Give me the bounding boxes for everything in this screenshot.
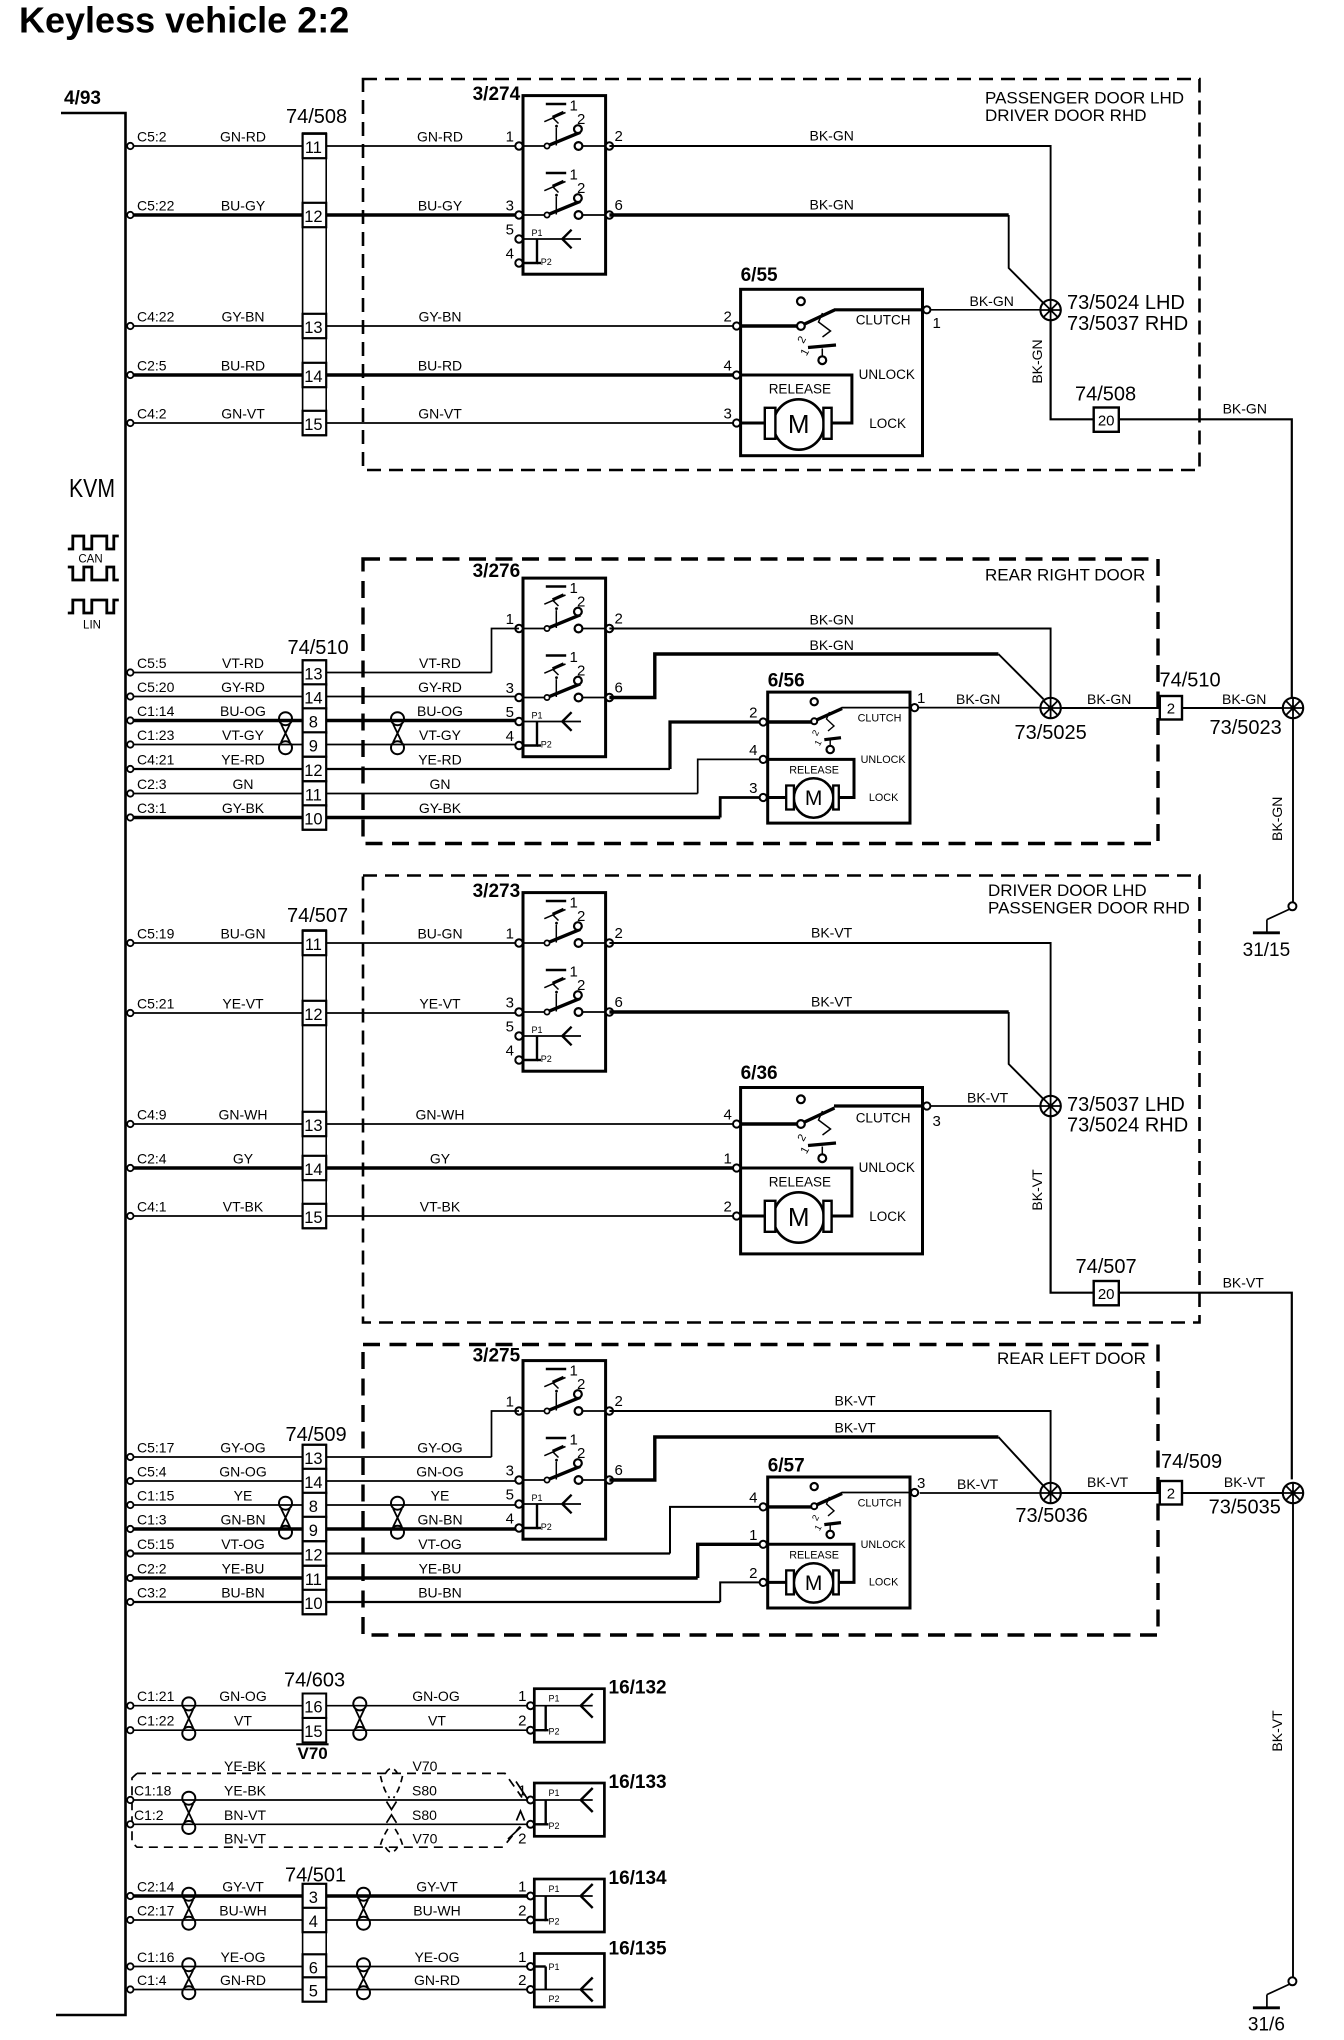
twist pair 74/509 left xyxy=(279,1497,292,1539)
connector 74/501 xyxy=(303,1884,327,2002)
svg-text:GY-RD: GY-RD xyxy=(418,679,462,695)
svg-text:73/5035: 73/5035 xyxy=(1209,1497,1281,1519)
svg-text:BU-OG: BU-OG xyxy=(220,703,266,719)
wire BK-GN splice to 74/510-2 xyxy=(1060,707,1160,709)
6/57 pin 1 xyxy=(760,1541,767,1548)
svg-text:BU-OG: BU-OG xyxy=(417,703,463,719)
svg-text:4: 4 xyxy=(309,1913,318,1931)
svg-text:S80: S80 xyxy=(412,1783,437,1799)
wire BK-VT down to ground 31/6 xyxy=(1292,1503,1294,1978)
6/56 pin 1 (right) xyxy=(911,704,918,711)
svg-text:BU-GN: BU-GN xyxy=(220,926,265,942)
6/36 release loop xyxy=(741,1168,852,1216)
svg-text:P2: P2 xyxy=(541,740,552,750)
wire GY-VT from 4/93 C2:14 xyxy=(127,1893,133,1899)
twist pair 74/501 right lower xyxy=(357,1958,370,1999)
svg-text:BK-VT: BK-VT xyxy=(835,1393,877,1409)
6/36 pin 1 xyxy=(733,1164,740,1171)
svg-text:2: 2 xyxy=(796,1132,809,1143)
wire GN-WH from 4/93 C4:9 xyxy=(127,1121,133,1127)
6/55 pin 4 xyxy=(733,371,740,378)
svg-text:C2:2: C2:2 xyxy=(137,1561,167,1577)
ground 31/6 xyxy=(1248,1977,1296,2035)
svg-text:C2:4: C2:4 xyxy=(137,1151,167,1167)
door lock unit 3/273 box xyxy=(523,893,606,1072)
3/273 pin 1 xyxy=(515,939,522,946)
wire YE from 4/93 C1:15 xyxy=(127,1502,133,1508)
svg-text:13: 13 xyxy=(304,666,322,684)
3/275 pin 5 xyxy=(515,1500,522,1507)
6/36 pin 3 (right) xyxy=(923,1102,930,1109)
svg-text:3/273: 3/273 xyxy=(473,881,521,902)
svg-text:BK-GN: BK-GN xyxy=(970,293,1014,309)
6/57 detent symbol xyxy=(810,1497,841,1538)
svg-text:8: 8 xyxy=(309,1498,318,1516)
variant box V70/S80 dashed xyxy=(132,1773,522,1847)
svg-text:BK-VT: BK-VT xyxy=(1087,1474,1129,1490)
svg-text:S80: S80 xyxy=(412,1807,437,1823)
svg-text:2: 2 xyxy=(518,1972,526,1989)
svg-text:C5:5: C5:5 xyxy=(137,655,167,671)
svg-text:73/5024 RHD: 73/5024 RHD xyxy=(1067,1115,1188,1137)
svg-text:GN-BN: GN-BN xyxy=(220,1512,265,1528)
svg-text:LIN: LIN xyxy=(83,620,101,632)
svg-text:GY: GY xyxy=(233,1151,254,1167)
wire BN-VT C1:2 xyxy=(127,1821,133,1827)
svg-text:3: 3 xyxy=(749,780,757,797)
svg-text:11: 11 xyxy=(305,787,322,805)
variant merge mid caret xyxy=(517,1811,525,1821)
twist pair 74/603 right xyxy=(353,1697,366,1740)
svg-text:5: 5 xyxy=(506,1487,514,1504)
wire YE-OG from 4/93 C1:16 xyxy=(127,1963,133,1969)
6/36 clutch switch xyxy=(741,1095,923,1128)
wire BK-VT 6/57 pin3 to splice xyxy=(920,1492,1041,1494)
3/276 pin 3 xyxy=(515,694,522,701)
svg-text:2: 2 xyxy=(724,309,732,326)
svg-text:6/57: 6/57 xyxy=(768,1456,805,1477)
6/56 pin 2 xyxy=(760,718,767,725)
svg-text:2: 2 xyxy=(1167,1486,1175,1503)
wire BU-BN from 4/93 C3:2 xyxy=(127,1599,133,1605)
wire BK-GN to right edge xyxy=(1119,419,1292,698)
svg-text:4: 4 xyxy=(506,1043,514,1060)
svg-text:VT-BK: VT-BK xyxy=(420,1199,461,1215)
svg-text:P1: P1 xyxy=(532,1493,543,1503)
svg-text:1: 1 xyxy=(518,1688,526,1705)
svg-text:9: 9 xyxy=(309,1522,318,1540)
svg-text:P2: P2 xyxy=(541,1054,552,1064)
svg-text:C1:14: C1:14 xyxy=(137,703,175,719)
svg-text:P1: P1 xyxy=(549,1962,560,1972)
svg-text:YE-OG: YE-OG xyxy=(414,1949,459,1965)
svg-text:1: 1 xyxy=(812,738,823,747)
wire BU-RD from 4/93 C2:5 xyxy=(127,372,133,378)
svg-text:GN-BN: GN-BN xyxy=(417,1512,462,1528)
16/132 P1/P2 receiver symbol xyxy=(534,1694,592,1737)
svg-text:CLUTCH: CLUTCH xyxy=(858,1497,902,1509)
svg-text:PASSENGER DOOR LHD: PASSENGER DOOR LHD xyxy=(985,89,1184,108)
svg-text:C4:2: C4:2 xyxy=(137,406,167,422)
svg-text:GY-BN: GY-BN xyxy=(418,309,461,325)
splice 73/5035 xyxy=(1283,1483,1303,1503)
6/56 pin 4 xyxy=(760,756,767,763)
svg-text:C1:16: C1:16 xyxy=(137,1949,175,1965)
wire VT-RD from 4/93 C5:5 xyxy=(127,669,133,675)
wire GN-BN from 4/93 C1:3 xyxy=(127,1526,133,1532)
svg-text:73/5023: 73/5023 xyxy=(1210,717,1282,739)
svg-text:1: 1 xyxy=(506,1394,514,1411)
svg-text:GN: GN xyxy=(233,776,254,792)
wire BK-VT splice down to 74/507-20 xyxy=(1051,1116,1094,1293)
lock motor unit 6/36 box xyxy=(741,1088,923,1254)
section box REAR LEFT DOOR xyxy=(363,1345,1158,1636)
3/276 P1/P2 key symbol xyxy=(523,710,581,749)
svg-text:YE-OG: YE-OG xyxy=(220,1949,265,1965)
svg-text:P1: P1 xyxy=(549,1788,560,1798)
svg-text:P1: P1 xyxy=(549,1884,560,1894)
svg-text:V70: V70 xyxy=(298,1744,328,1763)
door lock unit 3/274 box xyxy=(523,96,606,275)
svg-text:2: 2 xyxy=(1167,701,1175,718)
variant crossover X xyxy=(387,1802,397,1810)
3/275 switch1 xyxy=(523,1363,606,1415)
svg-text:11: 11 xyxy=(305,936,322,954)
svg-text:12: 12 xyxy=(304,1006,322,1024)
svg-text:YE-BK: YE-BK xyxy=(224,1783,267,1799)
svg-text:BK-VT: BK-VT xyxy=(1223,1275,1265,1291)
svg-text:BK-GN: BK-GN xyxy=(1222,691,1266,707)
svg-text:6/36: 6/36 xyxy=(741,1063,778,1084)
3/274 pin 2 xyxy=(606,142,613,149)
svg-text:5: 5 xyxy=(506,1019,514,1036)
svg-text:M: M xyxy=(805,1572,823,1595)
svg-text:11: 11 xyxy=(305,1571,322,1589)
splice 73/5023 xyxy=(1283,698,1303,718)
svg-text:C1:15: C1:15 xyxy=(137,1488,175,1504)
variant merge upper funnel xyxy=(381,1768,403,1798)
svg-text:3/276: 3/276 xyxy=(473,561,521,582)
variant merge lower funnel xyxy=(381,1827,403,1853)
6/56 detent symbol xyxy=(810,712,841,753)
svg-text:BK-VT: BK-VT xyxy=(811,994,853,1010)
wire GN from 4/93 C2:3 xyxy=(127,790,133,796)
svg-text:2: 2 xyxy=(615,128,623,145)
svg-text:6/56: 6/56 xyxy=(768,671,805,692)
3/275 switch2 xyxy=(523,1432,606,1484)
door lock unit 3/275 box xyxy=(523,1361,606,1540)
svg-text:73/5024 LHD: 73/5024 LHD xyxy=(1067,292,1185,314)
svg-text:Keyless vehicle 2:2: Keyless vehicle 2:2 xyxy=(19,0,349,41)
3/274 P1/P2 key symbol xyxy=(523,228,581,267)
svg-text:9: 9 xyxy=(309,738,318,756)
svg-text:GY-RD: GY-RD xyxy=(221,679,265,695)
connector 74/508 pin 20 box xyxy=(1094,408,1119,432)
3/274 pin 5 xyxy=(515,235,522,242)
wire YE-BU jog to 6/57 pin1 xyxy=(698,1544,760,1578)
wire BU-GY from 4/93 C5:22 xyxy=(127,212,133,218)
variant merge diag top xyxy=(516,1782,528,1800)
svg-text:11: 11 xyxy=(305,139,322,157)
svg-text:BK-VT: BK-VT xyxy=(811,925,853,941)
svg-text:C1:23: C1:23 xyxy=(137,727,175,743)
6/55 motor M xyxy=(765,399,832,449)
svg-text:8: 8 xyxy=(309,714,318,732)
svg-text:V70: V70 xyxy=(413,1831,438,1847)
3/276 pin 4 xyxy=(515,742,522,749)
svg-text:CLUTCH: CLUTCH xyxy=(858,713,902,725)
svg-text:VT-BK: VT-BK xyxy=(223,1199,264,1215)
svg-text:GN-OG: GN-OG xyxy=(219,1464,266,1480)
svg-text:LOCK: LOCK xyxy=(869,1577,899,1589)
svg-text:C5:21: C5:21 xyxy=(137,996,175,1012)
svg-text:BK-GN: BK-GN xyxy=(810,128,854,144)
svg-text:15: 15 xyxy=(304,1723,322,1741)
svg-text:74/508: 74/508 xyxy=(1075,384,1136,406)
wire BK-VT 3/275 pin2 to splice xyxy=(609,1411,1050,1483)
wire BK-GN 3/276 pin2 to splice xyxy=(609,629,1050,699)
svg-text:P2: P2 xyxy=(549,1727,560,1737)
svg-text:GY-BN: GY-BN xyxy=(221,309,264,325)
svg-text:1: 1 xyxy=(518,1783,526,1800)
svg-text:73/5037 LHD: 73/5037 LHD xyxy=(1067,1094,1185,1116)
splice 73/5036 xyxy=(1040,1483,1060,1503)
svg-text:GY-OG: GY-OG xyxy=(220,1440,265,1456)
svg-text:2: 2 xyxy=(796,334,809,345)
wire YE-BU from 4/93 C2:2 xyxy=(127,1575,133,1581)
svg-text:REAR RIGHT DOOR: REAR RIGHT DOOR xyxy=(985,566,1145,585)
wire VT-OG from 4/93 C5:15 xyxy=(127,1550,133,1556)
3/273 switch1 xyxy=(523,895,606,947)
svg-text:2: 2 xyxy=(615,925,623,942)
svg-text:YE-BU: YE-BU xyxy=(419,1561,462,1577)
6/56 lock wire xyxy=(768,796,787,799)
svg-text:BU-RD: BU-RD xyxy=(418,358,462,374)
svg-text:RELEASE: RELEASE xyxy=(789,765,839,777)
twist pair 74/603 left xyxy=(182,1697,195,1740)
svg-text:BK-GN: BK-GN xyxy=(1223,401,1267,417)
svg-text:C5:2: C5:2 xyxy=(137,129,167,145)
svg-text:10: 10 xyxy=(304,811,322,829)
svg-text:VT: VT xyxy=(234,1713,252,1729)
svg-text:BK-GN: BK-GN xyxy=(1029,339,1045,383)
6/36 detent symbol xyxy=(796,1111,836,1162)
svg-text:GY-OG: GY-OG xyxy=(417,1440,462,1456)
svg-text:DRIVER DOOR RHD: DRIVER DOOR RHD xyxy=(985,106,1147,125)
svg-text:REAR LEFT DOOR: REAR LEFT DOOR xyxy=(997,1349,1146,1368)
3/275 pin 3 xyxy=(515,1476,522,1483)
svg-text:BK-GN: BK-GN xyxy=(956,691,1000,707)
3/276 pin 2 xyxy=(606,625,613,632)
svg-text:P1: P1 xyxy=(549,1694,560,1704)
6/57 release loop xyxy=(768,1544,854,1582)
svg-text:KVM: KVM xyxy=(69,473,115,503)
connector 74/507 pin 20 box xyxy=(1094,1281,1119,1305)
16/132 pin 1 xyxy=(527,1702,534,1709)
twist pair 74/501 left lower xyxy=(182,1958,195,1999)
door lock unit 3/276 box xyxy=(523,578,606,757)
svg-text:14: 14 xyxy=(304,690,322,708)
svg-text:C5:15: C5:15 xyxy=(137,1536,175,1552)
6/55 lock wire xyxy=(741,422,765,425)
svg-text:M: M xyxy=(805,787,823,810)
svg-text:GN-OG: GN-OG xyxy=(219,1688,266,1704)
svg-text:GN-RD: GN-RD xyxy=(414,1972,460,1988)
svg-text:3: 3 xyxy=(309,1889,318,1907)
svg-text:C2:5: C2:5 xyxy=(137,358,167,374)
svg-text:12: 12 xyxy=(304,208,322,226)
3/273 pin 5 xyxy=(515,1032,522,1039)
svg-text:BU-RD: BU-RD xyxy=(221,358,265,374)
connector 74/507 xyxy=(303,930,327,1229)
3/273 pin 6 xyxy=(606,1008,613,1015)
svg-text:UNLOCK: UNLOCK xyxy=(861,754,907,766)
6/56 release loop xyxy=(768,759,854,797)
svg-text:13: 13 xyxy=(304,1450,322,1468)
svg-text:GN-RD: GN-RD xyxy=(220,129,266,145)
wire VT-RD riser to 3/276 pin1 xyxy=(492,629,520,673)
6/56 clutch switch xyxy=(768,698,910,724)
svg-text:CAN: CAN xyxy=(78,554,102,566)
wire GY from 4/93 C2:4 xyxy=(127,1165,133,1171)
svg-text:PASSENGER DOOR RHD: PASSENGER DOOR RHD xyxy=(988,899,1190,918)
svg-text:BK-VT: BK-VT xyxy=(967,1090,1009,1106)
svg-text:GN: GN xyxy=(430,776,451,792)
svg-text:DRIVER DOOR LHD: DRIVER DOOR LHD xyxy=(988,881,1147,900)
antenna unit 16/135 box xyxy=(534,1954,604,2008)
wire VT from 4/93 C1:22 xyxy=(127,1727,133,1733)
svg-text:YE-RD: YE-RD xyxy=(221,752,265,768)
3/276 switch1 xyxy=(523,580,606,632)
6/55 clutch switch xyxy=(741,297,923,330)
svg-text:GN-RD: GN-RD xyxy=(220,1972,266,1988)
svg-text:74/507: 74/507 xyxy=(287,905,348,927)
wire YE-RD from 4/93 C4:21 xyxy=(127,766,133,772)
svg-text:2: 2 xyxy=(518,1830,526,1847)
svg-text:C5:17: C5:17 xyxy=(137,1440,175,1456)
svg-text:73/5037 RHD: 73/5037 RHD xyxy=(1067,313,1188,335)
svg-text:1: 1 xyxy=(506,926,514,943)
3/276 pin 1 xyxy=(515,625,522,632)
svg-text:GN-VT: GN-VT xyxy=(418,406,462,422)
lock motor unit 6/56 box xyxy=(768,692,910,823)
16/133 pin 2 xyxy=(527,1821,534,1828)
16/134 pin 2 xyxy=(527,1917,534,1924)
6/36 pin 4 xyxy=(733,1120,740,1127)
6/57 pin 2 xyxy=(760,1579,767,1586)
svg-text:VT: VT xyxy=(428,1713,446,1729)
svg-text:74/509: 74/509 xyxy=(286,1424,347,1446)
16/135 pin 2 xyxy=(527,1986,534,1993)
svg-text:VT-GY: VT-GY xyxy=(222,727,265,743)
svg-text:2: 2 xyxy=(749,1565,757,1582)
twist pair 74/510 right xyxy=(391,712,404,754)
svg-text:GN-OG: GN-OG xyxy=(416,1464,463,1480)
3/274 pin 4 xyxy=(515,259,522,266)
svg-text:BU-BN: BU-BN xyxy=(418,1585,462,1601)
lock motor unit 6/55 box xyxy=(741,289,923,455)
svg-text:BK-GN: BK-GN xyxy=(810,612,854,628)
svg-text:1: 1 xyxy=(933,315,941,332)
3/274 switch2 xyxy=(523,167,606,219)
wire YE-BK C1:18 xyxy=(127,1797,133,1803)
svg-text:73/5025: 73/5025 xyxy=(1015,722,1087,744)
svg-text:5: 5 xyxy=(506,222,514,239)
svg-text:16/134: 16/134 xyxy=(609,1868,668,1889)
svg-text:4/93: 4/93 xyxy=(64,88,101,109)
svg-text:GN-VT: GN-VT xyxy=(221,406,265,422)
svg-text:LOCK: LOCK xyxy=(869,416,906,431)
svg-text:3: 3 xyxy=(917,1475,925,1492)
svg-text:2: 2 xyxy=(810,1513,821,1522)
svg-text:1: 1 xyxy=(518,1879,526,1896)
6/36 pin 2 xyxy=(733,1212,740,1219)
wire BK-GN to splice 73/5023 xyxy=(1182,707,1283,709)
twist pair 74/510 left xyxy=(279,712,292,754)
svg-text:VT-OG: VT-OG xyxy=(221,1536,265,1552)
svg-text:GY: GY xyxy=(430,1151,451,1167)
svg-text:3: 3 xyxy=(933,1113,941,1130)
svg-text:GY-VT: GY-VT xyxy=(222,1879,264,1895)
svg-text:20: 20 xyxy=(1098,1286,1115,1303)
variant merge diag bottom xyxy=(508,1827,521,1839)
svg-text:74/510: 74/510 xyxy=(288,637,349,659)
6/55 release loop xyxy=(741,375,852,423)
svg-text:VT-RD: VT-RD xyxy=(419,655,461,671)
svg-text:C2:14: C2:14 xyxy=(137,1879,175,1895)
svg-text:6: 6 xyxy=(309,1960,318,1978)
svg-text:74/510: 74/510 xyxy=(1160,670,1221,692)
wire GY-OG riser to 3/275 pin1 xyxy=(492,1411,520,1457)
svg-text:16: 16 xyxy=(304,1699,322,1717)
wire BK-VT 3/275 pin6 jog xyxy=(609,1437,998,1480)
section box PASSENGER DOOR xyxy=(363,79,1200,470)
svg-text:6: 6 xyxy=(615,680,623,697)
wire BK-VT splice to 74/509-2 xyxy=(1060,1492,1160,1494)
svg-text:BN-VT: BN-VT xyxy=(224,1807,266,1823)
svg-text:BK-GN: BK-GN xyxy=(810,637,854,653)
wire BU-GN from 4/93 C5:19 xyxy=(127,940,133,946)
svg-text:BK-GN: BK-GN xyxy=(1087,691,1131,707)
3/276 switch2 xyxy=(523,649,606,701)
svg-text:1: 1 xyxy=(518,1949,526,1966)
svg-text:2: 2 xyxy=(615,611,623,628)
antenna unit 16/132 box xyxy=(534,1689,604,1743)
svg-text:4: 4 xyxy=(749,1489,757,1506)
wire GY-BK jog to 6/56 pin3 xyxy=(720,798,759,818)
svg-text:YE-RD: YE-RD xyxy=(418,752,462,768)
svg-text:BU-BN: BU-BN xyxy=(221,1585,265,1601)
svg-text:RELEASE: RELEASE xyxy=(769,1175,831,1190)
svg-text:P2: P2 xyxy=(549,1917,560,1927)
3/276 pin 6 xyxy=(606,694,613,701)
svg-text:3: 3 xyxy=(506,1463,514,1480)
svg-text:GN-WH: GN-WH xyxy=(219,1107,268,1123)
svg-text:C1:2: C1:2 xyxy=(134,1807,164,1823)
connector 74/509 pin 2 box xyxy=(1160,1481,1182,1505)
svg-text:C1:22: C1:22 xyxy=(137,1713,175,1729)
svg-text:LOCK: LOCK xyxy=(869,1209,906,1224)
3/275 pin 1 xyxy=(515,1407,522,1414)
wire BU-OG from 4/93 C1:14 xyxy=(127,717,133,723)
6/36 motor M xyxy=(765,1192,832,1242)
svg-text:2: 2 xyxy=(724,1199,732,1216)
V70 variant underline xyxy=(296,1743,328,1745)
svg-text:P1: P1 xyxy=(532,1025,543,1035)
3/276 pin 5 xyxy=(515,718,522,725)
splice 73/5025 xyxy=(1040,698,1060,718)
connector 74/508 xyxy=(303,133,327,436)
